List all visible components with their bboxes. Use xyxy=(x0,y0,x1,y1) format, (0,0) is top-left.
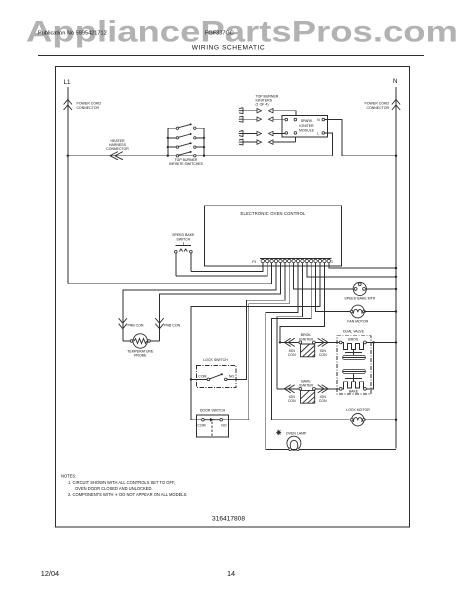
svg-text:INFINITE SWITCHES: INFINITE SWITCHES xyxy=(169,162,204,166)
wire pin13 to fan motor xyxy=(316,263,351,312)
svg-text:CONNECTOR: CONNECTOR xyxy=(77,106,100,110)
probe connector left PRB CON xyxy=(119,318,127,329)
svg-text:FAN MOTOR: FAN MOTOR xyxy=(347,319,368,323)
wire pin1 to speed bake switch right xyxy=(191,263,263,272)
speed bake motor M1 xyxy=(353,282,366,295)
wire speed bake switch left lead xyxy=(175,253,177,276)
electronic oven control U2 xyxy=(204,206,341,266)
svg-text:CON: CON xyxy=(288,399,296,403)
svg-text:DUAL VALVE: DUAL VALVE xyxy=(343,330,365,334)
schematic border frame xyxy=(56,67,410,528)
ladder left rail xyxy=(167,128,169,156)
wire speed bake switch right lead xyxy=(190,253,192,272)
svg-text:IGNITER: IGNITER xyxy=(299,337,314,341)
wire valve coils to bus xyxy=(366,341,396,343)
junction N bus top xyxy=(395,155,397,157)
wire pin2 to speed bake switch left xyxy=(176,263,267,276)
top burner igniter row 2 xyxy=(239,116,285,122)
svg-text:PRB CON: PRB CON xyxy=(128,324,144,328)
wire L1 drop xyxy=(67,87,69,284)
module pin terminals xyxy=(285,118,288,121)
junction L1 bus xyxy=(67,155,69,157)
valve body cylinder 2 xyxy=(343,369,366,373)
svg-text:BROIL: BROIL xyxy=(348,338,359,342)
junction neutral pin16 xyxy=(395,267,397,269)
wire pin6 to lock switch NO xyxy=(227,263,285,380)
svg-text:316417808: 316417808 xyxy=(212,516,245,523)
svg-text:Publication No 5995421712: Publication No 5995421712 xyxy=(38,31,107,37)
svg-text:CONNECTOR: CONNECTOR xyxy=(106,147,129,151)
wire main L1 bus xyxy=(68,155,333,157)
connector IGN CON bake right xyxy=(318,385,328,393)
wire pin16 to neutral bus xyxy=(329,263,396,268)
svg-text:DOOR SWITCH: DOOR SWITCH xyxy=(200,408,226,412)
svg-text:IGNITER: IGNITER xyxy=(299,124,314,128)
junction ladder-bus left xyxy=(167,155,169,157)
wire pin7 to door switch NO xyxy=(223,263,290,420)
header rule xyxy=(38,54,424,56)
svg-text:N: N xyxy=(393,78,397,85)
connector IGN CON broil right xyxy=(318,338,328,346)
svg-text:OVEN LAMP: OVEN LAMP xyxy=(286,431,307,435)
oven lamp DS1 xyxy=(276,430,281,435)
wire pin10 to bake igniter feed xyxy=(277,263,302,389)
probe connector right PRB CON xyxy=(155,318,163,329)
bake valve coil xyxy=(339,387,342,390)
svg-text:12/04: 12/04 xyxy=(41,569,59,578)
wire speed bake motor to bus xyxy=(366,288,396,290)
bake igniter element xyxy=(301,390,315,403)
junction bus lock motor xyxy=(395,419,397,421)
svg-text:COM: COM xyxy=(197,423,205,427)
wire lock COM branch xyxy=(191,378,207,380)
wire pin14 to lock and door switch COM xyxy=(191,263,320,420)
connector IGN CON bake left xyxy=(284,385,294,393)
wire pin3 to L1 rail xyxy=(68,263,272,284)
svg-text:LOCK MOTOR: LOCK MOTOR xyxy=(346,408,370,412)
heater harness connector xyxy=(110,152,123,160)
svg-text:(1 OF 4): (1 OF 4) xyxy=(256,103,269,107)
svg-text:SPARK: SPARK xyxy=(301,119,313,123)
svg-text:LOCK SWITCH: LOCK SWITCH xyxy=(203,358,228,362)
junction ladder-bus right xyxy=(203,155,205,157)
svg-text:PRB CON: PRB CON xyxy=(164,324,180,328)
svg-text:SWITCH: SWITCH xyxy=(176,237,190,241)
svg-text:IGNITER: IGNITER xyxy=(299,384,314,388)
wire probe left lead xyxy=(123,340,130,342)
wire pin8 to speed bake motor xyxy=(294,263,354,289)
junction bus speed bake motor xyxy=(395,288,397,290)
wire module L to L1 bus xyxy=(325,133,333,156)
fan motor M2 xyxy=(351,305,364,318)
wire module N to bus xyxy=(325,120,396,156)
junction bus fan motor xyxy=(395,310,397,312)
switch S2 xyxy=(168,137,176,139)
wire pin5 to probe right connector xyxy=(160,263,281,341)
svg-text:WIRING SCHEMATIC: WIRING SCHEMATIC xyxy=(192,45,266,52)
broil igniter element xyxy=(301,344,315,357)
temperature probe RT1 xyxy=(130,340,133,343)
top burner infinite switches ladder xyxy=(167,123,206,156)
wire probe right lead xyxy=(150,340,159,342)
switch S3 xyxy=(168,146,176,148)
svg-text:BAKE: BAKE xyxy=(349,390,359,394)
valve body cylinder 1 xyxy=(343,355,366,359)
wire bake row left xyxy=(277,388,299,390)
wire pin9 to oven lamp xyxy=(266,263,298,450)
junction neutral pin11 xyxy=(395,276,397,278)
svg-text:ELECTRONIC OVEN CONTROL: ELECTRONIC OVEN CONTROL xyxy=(241,211,306,216)
power cord connector N xyxy=(392,100,400,111)
switch S4 xyxy=(176,155,178,157)
wire broil row left xyxy=(280,341,299,343)
wire pin12 to lock motor xyxy=(271,263,349,420)
ladder right rail xyxy=(203,128,205,156)
svg-text:PROBE: PROBE xyxy=(134,353,147,357)
wire fan motor to bus xyxy=(364,311,396,313)
svg-text:14: 14 xyxy=(227,569,235,578)
top burner igniter row 3 xyxy=(239,130,285,136)
junction broil feed xyxy=(279,341,281,343)
junction valve common xyxy=(372,341,374,343)
svg-text:CONNECTOR: CONNECTOR xyxy=(367,106,390,110)
top burner igniter row 4 xyxy=(239,137,296,145)
svg-text:2. COMPONENTS WITH ✳ DO NO: 2. COMPONENTS WITH ✳ DO NOT APPEAR ON AL… xyxy=(68,492,187,497)
svg-text:FGF337GC: FGF337GC xyxy=(205,31,234,37)
wire broil row right xyxy=(315,341,339,343)
svg-text:OVEN DOOR CLOSED AND UNLOCKED.: OVEN DOOR CLOSED AND UNLOCKED. xyxy=(75,486,153,491)
spark igniter module U1 xyxy=(282,115,328,137)
wire pin4 to probe left connector xyxy=(123,263,276,341)
svg-text:P1: P1 xyxy=(252,260,256,264)
svg-text:NOTES:: NOTES: xyxy=(61,474,76,479)
svg-text:NO: NO xyxy=(229,374,235,378)
wire N drop xyxy=(395,87,397,449)
wire pin11 to neutral bus xyxy=(307,263,396,277)
svg-text:1: 1 xyxy=(331,260,333,264)
svg-text:NO: NO xyxy=(221,423,227,427)
top burner igniter row 1 xyxy=(239,108,297,116)
broil valve armature xyxy=(353,350,355,353)
svg-text:COM: COM xyxy=(198,374,206,378)
power cord connector L1 xyxy=(64,100,72,111)
svg-text:L: L xyxy=(317,132,319,136)
svg-text:1. CIRCUIT SHOWN WITH ALL CO: 1. CIRCUIT SHOWN WITH ALL CONTROLS SET T… xyxy=(68,480,175,485)
junction bus valve xyxy=(395,341,397,343)
terminal strip pins xyxy=(260,259,332,263)
wire bake row right xyxy=(315,388,339,390)
wire pin15 to broil igniter feed xyxy=(280,263,324,343)
bake valve armature xyxy=(353,374,355,379)
svg-text:L1: L1 xyxy=(64,79,71,86)
junction lock switch COM branch xyxy=(190,378,192,380)
svg-text:MODULE: MODULE xyxy=(299,129,315,133)
connector IGN CON broil left xyxy=(284,338,294,346)
switch S1 xyxy=(168,127,176,129)
wire lock motor to bus xyxy=(364,419,396,421)
svg-text:CON: CON xyxy=(319,399,327,403)
svg-text:N: N xyxy=(317,118,320,122)
wire oven lamp run xyxy=(266,448,396,450)
svg-text:CON: CON xyxy=(319,353,327,357)
svg-text:SPEED BAKE MTR: SPEED BAKE MTR xyxy=(344,297,375,301)
svg-text:CON: CON xyxy=(288,353,296,357)
